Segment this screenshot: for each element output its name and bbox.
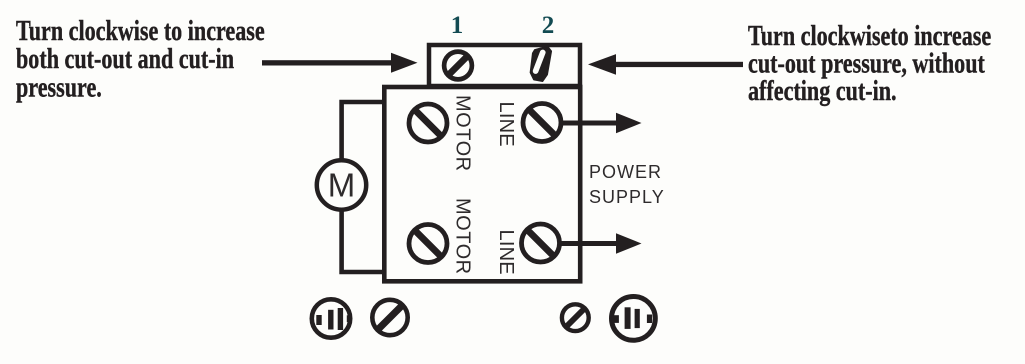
svg-text:MOTOR: MOTOR [452, 95, 474, 172]
svg-text:LINE: LINE [495, 230, 517, 275]
svg-text:MOTOR: MOTOR [452, 198, 474, 275]
mounting screw bottom right [555, 298, 595, 338]
arrow from right text to adjustment screw 2 [588, 54, 743, 75]
adjustment screw 1 [437, 45, 479, 87]
adjustment screw 2 slot [530, 46, 551, 81]
wire from motor to switch (bottom) [342, 212, 384, 273]
terminal screw MOTOR bottom [400, 215, 457, 272]
terminal screw LINE top [514, 94, 571, 151]
svg-text:Turn clockwiseto increase: Turn clockwiseto increase [748, 22, 991, 52]
svg-text:SUPPLY: SUPPLY [589, 187, 665, 207]
svg-text:POWER: POWER [589, 162, 662, 182]
motor M1 [317, 160, 366, 209]
left instruction text [16, 17, 265, 103]
conduit knockout symbol bottom right [612, 297, 656, 341]
svg-text:M: M [328, 167, 356, 204]
wire from motor to switch (top) [342, 102, 384, 159]
svg-text:pressure.: pressure. [16, 73, 102, 103]
power supply arrow top [560, 113, 642, 134]
svg-text:affecting cut-in.: affecting cut-in. [748, 77, 897, 107]
svg-text:LINE: LINE [495, 102, 517, 147]
svg-text:1: 1 [451, 12, 464, 39]
terminal screw LINE bottom [512, 215, 569, 272]
right instruction text [748, 22, 991, 107]
switch body box [384, 87, 580, 281]
svg-text:Turn clockwise to increase: Turn clockwise to increase [16, 17, 265, 47]
svg-text:2: 2 [542, 12, 555, 39]
conduit knockout symbol bottom left [312, 299, 352, 337]
power supply arrow bottom [560, 233, 642, 254]
svg-text:both cut-out and cut-in: both cut-out and cut-in [16, 45, 234, 75]
terminal screw MOTOR top [400, 95, 457, 152]
arrow from left text to adjustment screw 1 [262, 53, 418, 73]
POWER SUPPLY label [589, 162, 665, 207]
mounting screw bottom left [364, 291, 417, 344]
adjustment box [429, 45, 580, 86]
svg-text:cut-out pressure, without: cut-out pressure, without [748, 49, 985, 79]
